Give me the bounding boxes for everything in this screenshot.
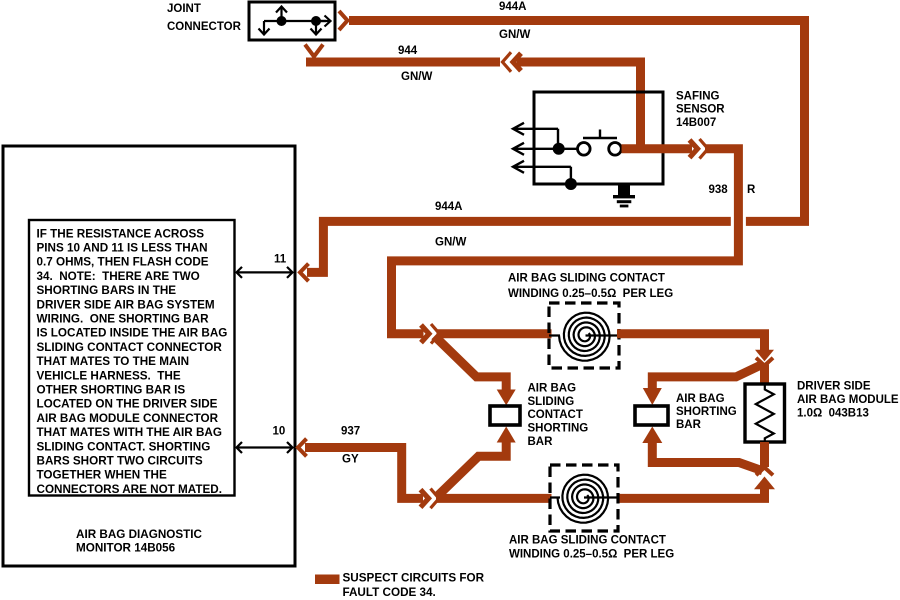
label AIR BAG SLIDING CONTACT SHORTING BAR: [528, 382, 589, 448]
wire 938: to the right, down, run2 left, down to coil feed: [392, 149, 739, 334]
arrow into shorting bar bottom: [497, 427, 516, 443]
joint connector box: [249, 2, 335, 40]
wire air bag shorting bar bottom loop: [652, 442, 762, 471]
wire module bottom: [760, 442, 769, 467]
svg-text:IF THE RESISTANCE ACROSS: IF THE RESISTANCE ACROSS: [37, 227, 205, 240]
svg-text:WINDING 0.25–0.5Ω PER LEG: WINDING 0.25–0.5Ω PER LEG: [509, 548, 674, 560]
svg-text:GN/W: GN/W: [499, 29, 530, 41]
svg-text:THAT MATES TO THE MAIN: THAT MATES TO THE MAIN: [37, 355, 190, 368]
svg-text:GN/W: GN/W: [435, 236, 466, 248]
upper winding spiral: [559, 313, 610, 361]
wire 944A return left segment to pin 11: [307, 221, 731, 272]
connector chevron at joint connector output: [339, 11, 348, 30]
label GN/W: [401, 71, 432, 83]
svg-text:FAULT CODE 34.: FAULT CODE 34.: [343, 586, 436, 599]
lower winding leads: [550, 496, 618, 498]
label 938: [709, 184, 729, 196]
label 944A mid: [435, 201, 463, 213]
label AIR BAG DIAGNOSTIC MONITOR 14B056: [76, 528, 203, 554]
module top female chevron: [756, 358, 773, 366]
wire 937 to lower winding: [436, 494, 552, 503]
svg-text:IS LOCATED INSIDE THE AIR BAG: IS LOCATED INSIDE THE AIR BAG: [37, 327, 228, 340]
label AIR BAG SHORTING BAR: [676, 393, 737, 431]
sensor left arrow 2: [513, 143, 553, 155]
svg-text:0.7 OHMS, THEN FLASH CODE: 0.7 OHMS, THEN FLASH CODE: [37, 256, 209, 269]
air bag shorting bar box: [635, 406, 668, 425]
svg-text:AIR BAG MODULE: AIR BAG MODULE: [797, 394, 899, 406]
svg-text:DRIVER SIDE: DRIVER SIDE: [797, 381, 871, 393]
svg-text:OTHER SHORTING BAR IS: OTHER SHORTING BAR IS: [37, 384, 186, 397]
svg-text:937: 937: [341, 425, 360, 437]
inline connector on wire 944: [503, 52, 522, 72]
sensor left arrow 3: [513, 161, 571, 180]
label 10: [273, 425, 286, 437]
wire 937: [305, 448, 423, 499]
svg-text:AIR BAG: AIR BAG: [676, 393, 725, 405]
label 937: [341, 425, 360, 437]
sensor junction dot: [553, 143, 565, 155]
safing sensor box: [534, 92, 663, 184]
air bag diagnostic monitor box: [3, 146, 295, 566]
label JOINT CONNECTOR: [167, 3, 242, 33]
svg-text:10: 10: [273, 425, 286, 437]
svg-text:AIR BAG SLIDING CONTACT: AIR BAG SLIDING CONTACT: [508, 272, 665, 284]
wire branch module to air bag shorting bar top: [652, 365, 762, 393]
upper winding dashed box: [549, 303, 619, 368]
legend text: [343, 571, 485, 599]
wire module top: [760, 365, 769, 385]
svg-text:SUSPECT CIRCUITS FOR: SUSPECT CIRCUITS FOR: [343, 571, 485, 584]
label AIR BAG SLIDING CONTACT WINDING (lower): [509, 534, 674, 560]
svg-text:34. NOTE: THERE ARE TWO: 34. NOTE: THERE ARE TWO: [37, 270, 200, 283]
svg-text:SLIDING CONTACT CONNECTOR: SLIDING CONTACT CONNECTOR: [37, 341, 223, 354]
ground: [613, 186, 635, 208]
svg-text:SAFING: SAFING: [676, 90, 720, 102]
air bag sliding contact shorting bar box: [490, 406, 520, 425]
svg-text:AIR BAG: AIR BAG: [528, 382, 577, 394]
svg-text:BAR: BAR: [676, 419, 702, 431]
label GN/W top: [499, 29, 530, 41]
wire 938 from sensor output: [622, 144, 693, 153]
wire lower winding to module bottom: [617, 488, 765, 498]
svg-text:944: 944: [398, 45, 418, 57]
arrow down at module top connector: [755, 350, 774, 362]
label AIR BAG SLIDING CONTACT WINDING (upper): [508, 272, 673, 300]
arrow up at module bottom connector: [754, 477, 775, 490]
svg-text:SHORTING: SHORTING: [528, 423, 589, 435]
wire branch to sliding contact shorting bar bottom: [437, 441, 506, 497]
svg-text:TOGETHER WHEN THE: TOGETHER WHEN THE: [37, 469, 168, 482]
lower winding spiral: [558, 475, 609, 523]
label SAFING SENSOR 14B007: [676, 90, 725, 128]
label 944A top: [499, 1, 527, 13]
inline connector on wire 938: [690, 139, 709, 159]
upper winding leads: [549, 334, 619, 336]
label 11: [274, 253, 287, 265]
label DRIVER SIDE AIR BAG MODULE: [797, 381, 899, 420]
svg-text:944A: 944A: [499, 1, 527, 13]
monitor note box: [29, 220, 235, 496]
connector chevron at start of wire 944: [305, 45, 323, 57]
wire 944 left segment: [306, 58, 500, 67]
monitor note text: [37, 227, 228, 496]
svg-text:GY: GY: [342, 453, 359, 465]
svg-text:JOINT: JOINT: [167, 3, 201, 15]
svg-text:AIR BAG MODULE CONNECTOR: AIR BAG MODULE CONNECTOR: [37, 412, 219, 425]
svg-text:VEHICLE HARNESS. THE: VEHICLE HARNESS. THE: [37, 369, 181, 382]
svg-text:SLIDING CONTACT. SHORTING: SLIDING CONTACT. SHORTING: [37, 440, 211, 453]
svg-text:SLIDING: SLIDING: [528, 396, 575, 408]
label 944: [398, 45, 418, 57]
resistor zigzag: [756, 384, 774, 442]
sensor switch blade: [583, 130, 617, 139]
svg-text:SHORTING BARS IN THE: SHORTING BARS IN THE: [37, 284, 177, 297]
arrow into air bag shorting bar top: [643, 388, 662, 405]
svg-text:GN/W: GN/W: [401, 71, 432, 83]
svg-text:938: 938: [709, 184, 729, 196]
svg-text:MONITOR 14B056: MONITOR 14B056: [76, 541, 176, 554]
svg-text:SHORTING: SHORTING: [676, 406, 737, 418]
wire upper winding to module: [617, 334, 765, 351]
svg-text:14B007: 14B007: [676, 117, 716, 129]
svg-text:1.0Ω 043B13: 1.0Ω 043B13: [797, 407, 869, 419]
svg-text:LOCATED ON THE DRIVER SIDE: LOCATED ON THE DRIVER SIDE: [37, 398, 218, 411]
svg-text:AIR BAG SLIDING CONTACT: AIR BAG SLIDING CONTACT: [509, 534, 666, 546]
arrow into air bag shorting bar bottom: [642, 427, 662, 444]
svg-text:CONTACT: CONTACT: [528, 409, 583, 421]
svg-text:11: 11: [274, 253, 287, 265]
arrow into shorting bar top: [497, 390, 516, 406]
svg-text:DRIVER SIDE AIR BAG SYSTEM: DRIVER SIDE AIR BAG SYSTEM: [37, 298, 215, 311]
connector chevron at pin 11: [300, 264, 309, 282]
driver side air bag module resistor box: [745, 384, 785, 442]
sensor contact circle right: [609, 143, 622, 156]
sensor bottom junction dot: [565, 178, 577, 190]
svg-text:CONNECTOR: CONNECTOR: [167, 21, 242, 33]
svg-text:BAR: BAR: [528, 436, 554, 448]
sensor contact circle left: [578, 143, 591, 156]
svg-text:PINS 10 AND 11 IS LESS THAN: PINS 10 AND 11 IS LESS THAN: [37, 242, 208, 255]
wire branch to sliding contact shorting bar top: [435, 336, 507, 392]
svg-text:AIR BAG DIAGNOSTIC: AIR BAG DIAGNOSTIC: [76, 528, 203, 541]
connector chevron at pin 10: [298, 439, 307, 457]
label GY: [342, 453, 359, 465]
label R: [747, 184, 756, 196]
module bottom female chevron: [756, 467, 773, 475]
svg-text:R: R: [747, 184, 756, 196]
inline connector on wire 937: [421, 489, 440, 509]
svg-text:THAT MATES WITH THE AIR BAG: THAT MATES WITH THE AIR BAG: [37, 426, 222, 439]
svg-text:WINDING 0.25–0.5Ω PER LEG: WINDING 0.25–0.5Ω PER LEG: [508, 288, 673, 300]
wire 944A: top run, right vertical, return run right segment: [349, 16, 805, 221]
svg-text:CONNECTORS ARE NOT MATED.: CONNECTORS ARE NOT MATED.: [37, 483, 223, 496]
svg-text:944A: 944A: [435, 201, 463, 213]
label GN/W mid: [435, 236, 466, 248]
pin 11 arrow: [236, 267, 293, 278]
lower winding dashed box: [550, 465, 618, 531]
legend swatch: [315, 575, 340, 585]
wire winding feed right segment: [437, 329, 552, 338]
wire 944 right segment into safing sensor: [517, 62, 641, 150]
svg-text:BARS SHORT TWO CIRCUITS: BARS SHORT TWO CIRCUITS: [37, 455, 203, 468]
inline connector on winding feed: [421, 324, 440, 344]
svg-text:WIRING. ONE SHORTING BAR: WIRING. ONE SHORTING BAR: [37, 313, 210, 326]
pin 10 arrow: [236, 442, 293, 453]
sensor wire dot to contact: [559, 148, 578, 150]
svg-text:SENSOR: SENSOR: [676, 104, 725, 116]
sensor left arrow 1: [513, 123, 558, 146]
